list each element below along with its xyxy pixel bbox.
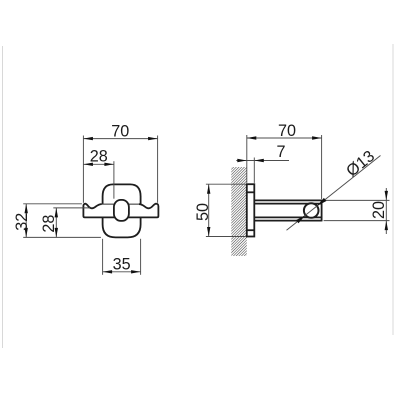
svg-text:28: 28 xyxy=(40,215,58,233)
svg-text:70: 70 xyxy=(278,122,296,140)
svg-text:50: 50 xyxy=(194,203,212,221)
dim 20 extension lines xyxy=(324,199,390,201)
page edge line left xyxy=(2,46,4,348)
arm inner bottom edge (rod tangent) xyxy=(254,216,321,218)
svg-text:20: 20 xyxy=(370,201,388,219)
arm inner top edge (rod tangent) xyxy=(254,203,321,205)
dim 28 top line xyxy=(83,163,114,165)
backplate rounded square xyxy=(103,184,141,237)
dim 70 (side) line xyxy=(247,137,322,139)
hook arm bar fill xyxy=(83,204,158,218)
dim 20 line xyxy=(385,188,387,234)
dim 70 (side) extension lines xyxy=(246,135,248,183)
dim 35 extension lines xyxy=(102,239,104,275)
rod tangent edge left xyxy=(102,203,114,205)
dim 50 extension lines (over hatch) xyxy=(206,183,246,185)
mounting plate xyxy=(247,184,255,236)
plate clip line bottom xyxy=(247,229,255,231)
svg-text:7: 7 xyxy=(276,143,285,161)
dim 28 left line xyxy=(55,208,57,238)
arm outer bottom edge xyxy=(254,220,321,222)
dim 7 extension line xyxy=(253,158,255,183)
svg-text:28: 28 xyxy=(90,148,108,166)
dim 35 line xyxy=(103,271,141,273)
plate clip line top xyxy=(247,191,255,193)
rod end circle Ø13 xyxy=(304,203,319,218)
arm end cap xyxy=(321,200,323,222)
dim 50 line xyxy=(208,184,210,236)
wall hatching xyxy=(231,167,247,256)
dim 70 (front) extension lines xyxy=(82,136,84,203)
page edge line right xyxy=(392,44,394,335)
dim 7 line xyxy=(236,160,289,162)
hub (central boss) xyxy=(114,200,129,221)
arm outer top edge xyxy=(254,199,321,201)
svg-text:32: 32 xyxy=(13,213,31,231)
dim 28 top extension line xyxy=(113,161,115,199)
rod tangent edge right xyxy=(129,203,139,205)
dim 32 line xyxy=(25,204,27,238)
Ø13 leader line xyxy=(287,156,381,231)
dim 32 extension lines xyxy=(23,203,82,205)
svg-text:70: 70 xyxy=(111,123,129,141)
hook arm silhouette xyxy=(83,204,158,218)
dim 70 (front) line xyxy=(83,138,157,140)
svg-text:35: 35 xyxy=(113,255,131,273)
dim 28 left extension line xyxy=(53,207,90,209)
